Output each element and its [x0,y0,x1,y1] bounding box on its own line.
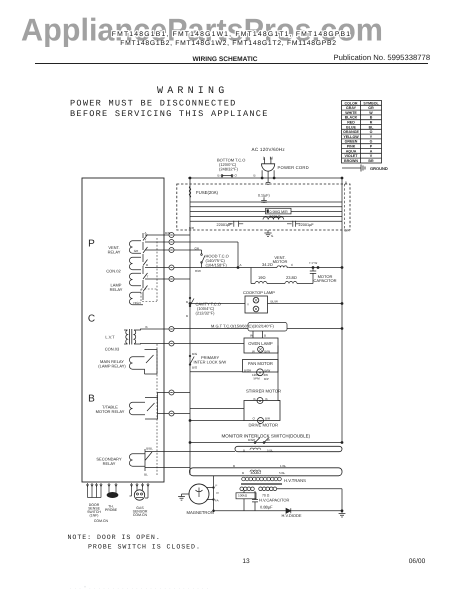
svg-text:ORANGE: ORANGE [343,130,359,134]
svg-text:Y: Y [144,237,146,241]
svg-text:N: N [270,156,273,161]
svg-text:19Ω: 19Ω [258,275,266,280]
oven lamp box [244,338,278,353]
svg-text:B/W: B/W [265,369,271,373]
terminal circles P section [169,233,174,282]
svg-text:B/W: B/W [264,349,270,353]
header rule [35,63,428,64]
motor FAN MOTOR [257,369,264,376]
noise filter bus line 5 [190,220,342,222]
svg-text:STIRRER MOTOR: STIRRER MOTOR [246,389,281,394]
winding 19ohm [255,282,267,284]
svg-text:B/P: B/P [264,377,269,381]
svg-text:COM.CN: COM.CN [94,519,109,523]
svg-text:FUSE(20A): FUSE(20A) [196,190,219,195]
svg-text:W: W [369,111,373,115]
capacitor 22001uF left [228,221,243,227]
svg-text:R/W: R/W [195,269,201,273]
svg-text:B: B [243,448,245,452]
svg-text:22001µF: 22001µF [217,223,233,227]
HV dashed enclosure box [177,184,350,230]
wire cooktop lamp row left [190,303,245,305]
svg-text:BL: BL [369,125,375,129]
relay coil T/TABLE MOTOR RELAY [129,402,137,414]
wire vent motor row [202,267,343,269]
noise filter bus line 2 [190,206,342,208]
svg-text:CON.03: CON.03 [105,347,120,352]
svg-text:M.G.T T.C.O(150/60°C)(302/140°: M.G.T T.C.O(150/60°C)(302/140°F) [211,324,275,329]
svg-text:MOTOR RELAY: MOTOR RELAY [96,409,125,414]
coil-contact leads [137,241,143,305]
switch HOOD T.C.O [202,250,206,268]
right feed column [278,346,280,401]
connector GAS SENSOR pins [132,483,149,490]
svg-text:FA: FA [215,499,219,503]
ground below filter box [264,230,271,237]
wire row to terminal 394 [158,393,169,414]
switch CAVITY T.C.O on rail [190,299,194,306]
fuse FUSE(20A) [189,187,191,198]
svg-text:B/G: B/G [192,366,198,370]
svg-text:PROBE SWITCH IS CLOSED.: PROBE SWITCH IS CLOSED. [88,544,201,551]
svg-text:MAGNETRON: MAGNETRON [187,510,214,515]
wire LVT row to oven lamp [174,343,244,345]
svg-text:NOTE: DOOR IS OPEN.: NOTE: DOOR IS OPEN. [68,534,161,541]
wire drive motor row [190,420,244,422]
contact T/TABLE [137,398,158,420]
svg-text:YELLOW: YELLOW [343,135,359,139]
motor STIRRER MOTOR [257,398,263,404]
bottom T.C.O symbol on bus [222,176,232,179]
svg-text:0.9MΩ M/R: 0.9MΩ M/R [270,210,289,214]
svg-text:T P W: T P W [309,261,317,265]
svg-text:GROUND: GROUND [370,166,388,171]
wire L.V.T top row [138,329,169,330]
wire row T [145,278,169,280]
svg-text:G: G [370,140,373,144]
contact MAIN RELAY [137,350,157,375]
capacitor H.V.CAPACITOR [252,500,258,511]
junction dots bus [341,267,343,269]
relay coil LAMP RELAY [129,292,137,304]
svg-text:BLACK: BLACK [345,116,358,120]
resistor marks in pill [250,470,261,472]
svg-text:BLUE: BLUE [346,125,356,129]
svg-text:0.88µF: 0.88µF [260,505,273,510]
inner dashed right edge [344,184,346,230]
capacitor branch row [251,283,313,285]
capacitor 0.1uF [261,198,267,204]
svg-text:B: B [345,181,347,185]
svg-text:C: C [88,314,95,325]
svg-text:H.V.DIODE: H.V.DIODE [282,513,302,518]
svg-text:PROBE: PROBE [105,508,118,512]
riser to capacitor branch [250,268,252,284]
svg-text:B/R: B/R [189,226,195,230]
stirrer motor box [244,401,280,421]
svg-text:B/GR: B/GR [244,369,252,373]
svg-text:Y: Y [247,303,249,307]
wire fan motor feed [190,371,243,373]
connector DOOR SENSE SWITCH pins [88,483,102,498]
svg-text:DRIVE MOTOR: DRIVE MOTOR [249,423,278,428]
thermal cutout M.G.T T.C.O box [248,323,287,332]
wire secondary relay to HV primary [145,451,235,453]
contact SECONDARY [137,449,152,471]
cooktop lamp bulb 2 [253,306,259,312]
wire row GR [145,249,169,251]
color code table [342,101,382,164]
svg-text:POWER MUST BE DISCONNECTED: POWER MUST BE DISCONNECTED [70,99,237,109]
wire secondary relay lower [145,467,190,469]
svg-text:L.V.T: L.V.T [105,335,115,340]
svg-text:R: R [370,121,373,125]
svg-text:POWER CORD: POWER CORD [278,165,309,170]
switch PRIMARY INTERLOCK on rail [190,357,194,365]
capacitor 22001uF right [287,221,300,227]
svg-text:BL: BL [144,473,148,477]
wire stirrer feed [174,393,244,409]
filament winding right [259,487,277,491]
svg-text:OVEN LAMP: OVEN LAMP [248,341,273,346]
resistor box 0.9M M/R [266,208,292,214]
svg-text:W: W [267,438,270,442]
svg-text:COLOR: COLOR [345,101,358,105]
magnetron filament leads [207,476,215,511]
primary marks [250,448,261,450]
motor DRIVE MOTOR [258,418,264,424]
svg-text:B/GR: B/GR [248,438,256,442]
svg-text:B: B [146,263,148,267]
svg-text:1 BL: 1 BL [280,464,287,468]
svg-text:A: A [240,263,242,267]
svg-text:(212/32°F): (212/32°F) [196,311,216,316]
svg-text:5 BL: 5 BL [267,448,274,452]
svg-text:B: B [88,394,95,405]
svg-text:Publication No. 5995338778: Publication No. 5995338778 [334,53,431,62]
svg-text:13: 13 [242,558,250,565]
connector TH.PROBE pins [109,483,116,493]
svg-text:T: T [147,274,149,278]
wire L.V.T bottom row [138,343,169,346]
svg-text:23.8Ω: 23.8Ω [286,275,297,280]
svg-text:400kΩ: 400kΩ [251,471,262,475]
wire row T to rail [174,278,190,280]
svg-text:BR: BR [368,159,374,163]
svg-text:BROWN: BROWN [344,159,358,163]
svg-text:A: A [370,149,373,153]
svg-text:B/R: B/R [165,231,171,235]
svg-text:WHITE: WHITE [345,111,357,115]
lamp OVEN LAMP [258,346,264,352]
svg-text:AC 120V/60Hz: AC 120V/60Hz [252,147,286,152]
svg-text:FMT148G1B2, FMT148G1W2, FMT148: FMT148G1B2, FMT148G1W2, FMT148G1T2, FM11… [120,40,337,47]
resistor 500k bumps [263,217,284,220]
svg-text:B: B [264,334,266,338]
junction dots hv [341,510,343,512]
svg-text:B: B [145,325,147,329]
noise filter bus line 1 [190,201,342,203]
relay coil CON.02 [129,273,137,285]
svg-text:22001µF: 22001µF [299,223,315,227]
fan motor box [243,360,279,373]
svg-text:H.V.CAPACITOR: H.V.CAPACITOR [259,498,289,503]
contact blades P [143,235,148,292]
plug pin L [264,157,266,164]
svg-text:GR: GR [368,106,374,110]
relay coil 2 [129,257,137,269]
svg-text:B: B [254,174,256,178]
svg-text:34.2Ω: 34.2Ω [262,262,273,267]
svg-text:B: B [186,300,188,304]
TH.PROBE body [107,492,118,497]
svg-text:W: W [252,349,255,353]
junction dots vent row [237,267,239,269]
svg-text:(1NF): (1NF) [90,514,99,518]
svg-text:COOKTOP LAMP: COOKTOP LAMP [243,290,275,295]
svg-text:(LAMP RELAY): (LAMP RELAY) [98,364,126,369]
top supply bus wire [188,177,342,179]
resistor box 100k [236,493,256,499]
svg-text:FMT148G1B1, FMT148G1W1, FMT148: FMT148G1B1, FMT148G1W1, FMT148G1T1, FMT1… [112,31,352,38]
ground legend [342,165,365,172]
wire monitor interlock row [190,442,342,444]
svg-text:AQUA: AQUA [346,149,357,153]
svg-text:B/R: B/R [345,229,351,233]
plug pin N [270,157,272,164]
svg-text:CAPACITOR: CAPACITOR [314,278,337,283]
wire winding right to bus [277,489,342,511]
wires MGT box to oven lamp [253,331,263,338]
relay coil SECONDARY RELAY [129,454,137,466]
svg-text:B/BL: B/BL [146,447,153,451]
svg-text:VIOLET: VIOLET [345,154,359,158]
magnetron ground [178,494,189,500]
svg-text:5 BL: 5 BL [279,471,286,475]
svg-text:F: F [216,484,218,488]
svg-text:MOTOR: MOTOR [273,259,288,264]
svg-text:RELAY: RELAY [103,461,116,466]
svg-text:0.1(µF): 0.1(µF) [258,194,270,198]
svg-text:PINK: PINK [347,145,356,149]
svg-text:B/G: B/G [192,352,198,356]
magnetron tube [189,484,209,504]
svg-text:B: B [186,314,188,318]
wire row A out of board [145,234,169,236]
svg-text:B/R: B/R [265,416,271,420]
ground right [339,511,346,517]
svg-text:WIRING SCHEMATIC: WIRING SCHEMATIC [192,56,257,63]
svg-text:06/00: 06/00 [409,558,426,565]
contact column P section [142,233,144,300]
svg-text:B: B [266,397,268,401]
wire bottom HV row [214,510,343,512]
svg-text:(104/158°F): (104/158°F) [206,263,228,268]
svg-text:W: W [250,334,253,338]
svg-text:(248/32°F): (248/32°F) [219,167,239,172]
vent motor winding [277,266,289,268]
relay coil MAIN RELAY [129,357,137,369]
diode H.V.DIODE [286,508,291,513]
control board outline [82,178,164,482]
transformer primary winding circles [242,477,282,481]
svg-text:WARNING: WARNING [157,86,228,97]
transformer core lines [241,483,282,484]
cord stem / strain relief [266,171,271,184]
svg-text:B: B [218,174,220,178]
cooktop lamp box [245,296,268,313]
motor capacitor symbol [310,268,316,284]
winding 23.8ohm [285,282,297,284]
svg-text:RED: RED [347,121,355,125]
secondary winding left [240,487,254,491]
svg-text:500kΩ: 500kΩ [270,215,281,219]
relay coil VENT.RELAY (upper) [129,241,137,253]
svg-text:A: A [144,231,146,235]
left rail wire (N) [189,178,191,475]
svg-text:FAN MOTOR: FAN MOTOR [248,361,273,366]
wire MGT row [174,328,342,330]
dashed link C-B sections [156,344,158,476]
wire oven to column [279,346,281,348]
svg-text:GRAY: GRAY [346,106,357,110]
HV winding pill box 2 [190,468,343,476]
svg-text:5PM: 5PM [254,376,261,380]
HV primary pill box [235,446,342,451]
wire row Y [145,241,169,243]
svg-text:B: B [254,397,256,401]
plug edge drops to bus [262,170,274,178]
wire row 414.5 to rail [174,413,190,415]
noise filter bus line 3 [190,211,342,213]
svg-text:H.V.TRANS: H.V.TRANS [284,478,306,483]
svg-text:RELAY: RELAY [110,287,123,292]
transformer L.V.T [124,329,138,345]
junction dots [261,177,263,179]
svg-text:100kΩ: 100kΩ [238,494,248,498]
wire secondary to capacitor [244,491,255,511]
svg-text:GREEN: GREEN [345,140,358,144]
svg-text:P: P [88,239,95,250]
wire row B to hood bottom [174,267,202,269]
main right bus wire [341,178,343,443]
svg-text:RELAY: RELAY [108,250,121,255]
svg-text:. . . *: . . . * . . . . . . . . . . . . . . . . … [70,585,209,590]
svg-text:B: B [233,464,235,468]
terminal circles C section [169,327,174,347]
terminal circles B section [169,390,174,416]
svg-text:COM.CN: COM.CN [133,513,148,517]
dashed mechanical link P [141,238,157,302]
power cord plug [262,164,275,171]
noise filter bus line 4 [190,215,342,217]
wire row A to rail [174,234,190,236]
svg-text:B: B [242,471,244,475]
wire row B [145,267,169,269]
wire row GR to hood tco [174,249,202,251]
svg-text:BL/W: BL/W [271,300,279,304]
svg-text:B: B [370,116,373,120]
svg-text:INTER LOCK S/W: INTER LOCK S/W [194,360,227,365]
switch MONITOR INTERLOCK (double) [255,438,269,443]
svg-text:BEFORE SERVICING THIS APPLIANC: BEFORE SERVICING THIS APPLIANCE [70,109,269,119]
GAS SENSOR body [134,490,144,500]
svg-text:CON.02: CON.02 [106,269,121,274]
cooktop lamp bulb 1 [253,297,259,303]
svg-text:HIGH: HIGH [133,301,141,305]
wire cooktop lamp row right [268,303,343,305]
wire row Y to riser [174,242,238,268]
svg-text:SYMBOL: SYMBOL [363,101,379,105]
svg-text:O: O [370,130,373,134]
